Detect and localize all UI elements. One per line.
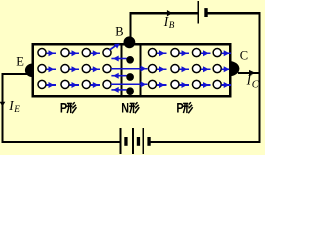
- svg-text:B: B: [115, 24, 123, 38]
- svg-text:N: N: [121, 100, 129, 115]
- svg-text:I: I: [246, 72, 252, 87]
- svg-text:E: E: [16, 54, 24, 68]
- svg-text:P: P: [176, 100, 183, 115]
- svg-text:B: B: [169, 20, 175, 30]
- svg-text:C: C: [252, 80, 260, 91]
- svg-text:C: C: [240, 48, 248, 62]
- svg-text:E: E: [13, 104, 20, 114]
- svg-text:P: P: [60, 100, 67, 115]
